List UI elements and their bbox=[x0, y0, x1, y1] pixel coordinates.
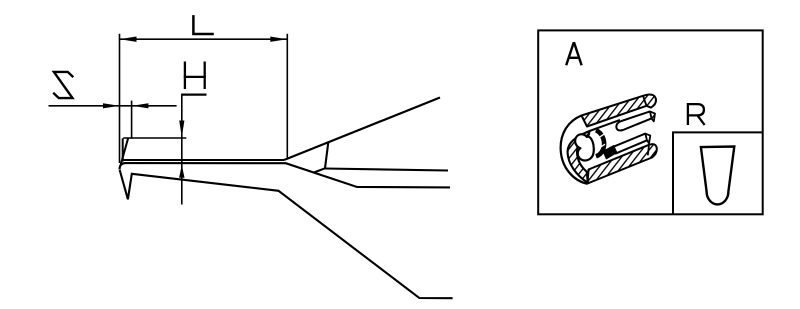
lower tip strip bottom edge bbox=[615, 140, 647, 154]
arrowhead H up bbox=[179, 165, 184, 178]
bent tip dark arc bbox=[596, 130, 604, 156]
arrowhead S pointing right bbox=[103, 103, 119, 108]
step line on arm bbox=[325, 142, 328, 168]
detail frame box bbox=[538, 30, 763, 214]
sub box for R bbox=[673, 132, 763, 214]
upper bar end separator bbox=[643, 96, 647, 106]
lower bent tip and lower jaw contour bbox=[120, 170, 453, 298]
inner void (heart shaped) bbox=[575, 134, 594, 160]
arm middle edge bbox=[325, 169, 448, 171]
upper bar hatched face bbox=[582, 95, 656, 127]
lower tip strip right end face bbox=[645, 134, 650, 144]
upper tip strip (rounded bar) bbox=[616, 111, 651, 130]
arrowhead L right bbox=[270, 37, 287, 42]
letter H (dimension label) bbox=[184, 62, 206, 90]
underline of H bbox=[181, 93, 206, 95]
white slash in dark arc 2 bbox=[597, 144, 605, 149]
upper jaw bottom edge and lower arm contour bbox=[120, 163, 451, 187]
lower tip strip dark end bbox=[604, 146, 617, 159]
step connector bbox=[314, 168, 325, 172]
upper arm top edge bbox=[284, 98, 440, 161]
leader line H bbox=[181, 95, 183, 205]
extension line right (L) bbox=[286, 34, 288, 158]
upper jaw top edge bbox=[123, 159, 284, 161]
arrowhead L left bbox=[120, 37, 137, 42]
lower bar end separator bbox=[648, 145, 649, 156]
white slash in dark arc bbox=[598, 134, 605, 139]
extension line left (L/S) bbox=[119, 34, 121, 163]
label A bbox=[566, 43, 581, 65]
rounded tip profile R bbox=[701, 147, 734, 205]
letter L (dimension label) bbox=[193, 15, 213, 34]
extension line S right bbox=[131, 101, 133, 139]
upper tip strip end face bbox=[650, 111, 655, 121]
bent tip wedge vertical edge bbox=[122, 138, 124, 161]
letter S (dimension label, stroke font) bbox=[53, 72, 73, 98]
arrowhead H down bbox=[179, 121, 184, 138]
arrowhead S pointing left bbox=[132, 103, 148, 108]
upper bar front band lower edge bbox=[590, 120, 621, 131]
bent tip wedge slanted edge bbox=[121, 138, 128, 164]
extension line of H (top of bent tip) bbox=[123, 137, 186, 139]
dimension line L bbox=[120, 38, 288, 40]
curl outer boundary bbox=[561, 116, 588, 184]
curl hatched arc band bbox=[568, 131, 590, 183]
leader line S bbox=[49, 105, 177, 107]
lower tip strip top edge bbox=[612, 134, 645, 148]
label R bbox=[687, 104, 705, 125]
lower bar hatched face bbox=[588, 144, 657, 183]
